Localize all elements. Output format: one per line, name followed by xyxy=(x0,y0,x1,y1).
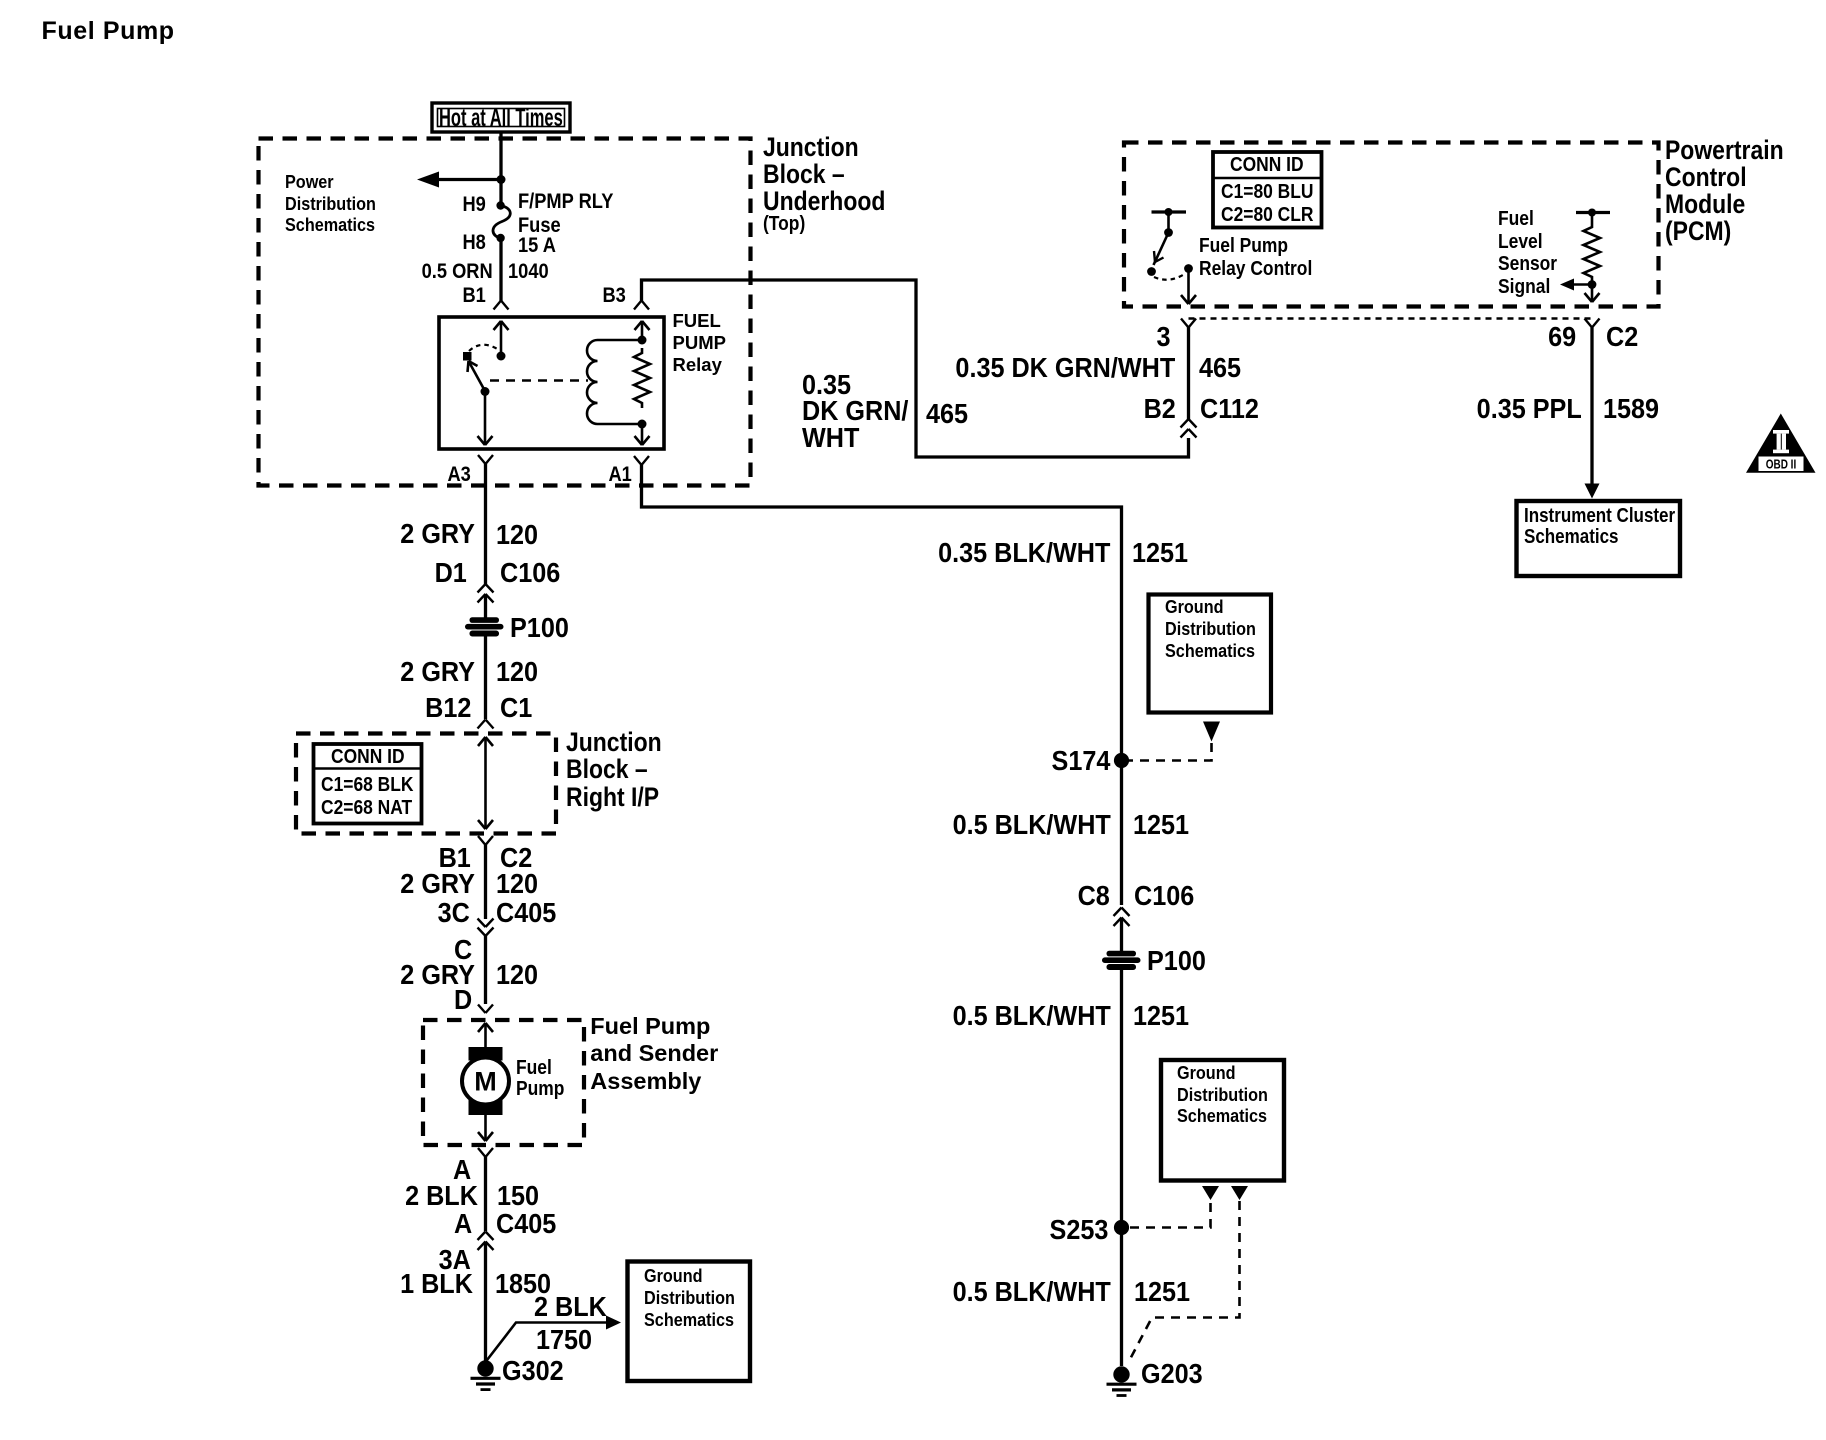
wire B3 to PCM pin 3 via C112 xyxy=(642,280,1189,457)
in-line connector C106 chevron and arrow xyxy=(478,584,494,603)
splice name S174 xyxy=(1052,747,1111,775)
connector C106 b xyxy=(1134,882,1194,910)
label Fuel Pump motor line1 xyxy=(516,1058,552,1079)
value C1=80 BLU xyxy=(1221,182,1313,203)
grommet P100 left xyxy=(465,617,504,636)
wire label 0.5 BLK/WHT c xyxy=(952,1278,1110,1306)
fuel pump relay box xyxy=(439,317,664,449)
relay dashed actuation line xyxy=(490,379,588,382)
splice S253 xyxy=(1114,1220,1129,1235)
grommet label P100 b xyxy=(1147,947,1206,975)
wire label 0.35 DK GRN/WHT xyxy=(956,354,1176,382)
circuit 1750 xyxy=(536,1326,592,1354)
wire motor to pump box bottom with arrow down xyxy=(478,1115,493,1141)
connector half D above pump assembly xyxy=(478,1005,493,1014)
label CONN ID rip header xyxy=(331,747,405,768)
pin D1 xyxy=(434,559,466,587)
pin D xyxy=(454,986,472,1014)
label Ground Distribution Schematics C line1 xyxy=(1177,1064,1236,1082)
label Powertrain Control Module line3 xyxy=(1665,191,1745,218)
in-line connector C112 chevron and arrow xyxy=(1181,419,1197,438)
pin 3 pcm xyxy=(1157,323,1171,351)
pin B1 relay xyxy=(463,285,486,306)
PCM connector face dotted line xyxy=(1189,317,1593,320)
pin A b xyxy=(454,1210,472,1238)
pin A1 xyxy=(609,464,632,485)
instrument cluster schematics box xyxy=(1517,501,1681,576)
PCM fuel pump relay control switch xyxy=(1147,208,1193,280)
splice name S253 xyxy=(1050,1216,1109,1244)
ground distribution schematics box C xyxy=(1161,1060,1284,1181)
pin H9 xyxy=(463,194,486,215)
label Fuel Pump Relay Control line1 xyxy=(1199,236,1288,257)
label Ground Distribution Schematics B line1 xyxy=(1165,598,1224,616)
label Fuel Level Sensor Signal line3 xyxy=(1498,254,1557,275)
junction block right IP dashed box xyxy=(296,734,556,834)
grommet label P100 a xyxy=(510,614,569,642)
pin A3 xyxy=(448,464,471,485)
circuit 1589 xyxy=(1603,395,1659,423)
value C2=68 NAT xyxy=(321,798,412,819)
wire label 2 GRY b xyxy=(400,658,475,686)
wire B1 to connector C405 xyxy=(484,845,487,919)
value Fuse xyxy=(518,215,561,236)
wire 0.35 PPL to instrument cluster xyxy=(1585,328,1600,499)
circuit 120 a xyxy=(496,521,538,549)
wire A1 from relay to right column xyxy=(642,465,1122,905)
fuel pump assembly dashed box xyxy=(423,1020,584,1145)
circuit number 1040 xyxy=(508,261,549,282)
junction block underhood dashed box xyxy=(259,139,751,486)
svg-text:M: M xyxy=(474,1067,497,1097)
pin B12 xyxy=(425,694,471,722)
circuit 120 c xyxy=(496,870,538,898)
label Power Distribution Schematics line3 xyxy=(285,216,375,234)
label Fuel Pump Relay Control line2 xyxy=(1199,259,1312,280)
dashed branch S174 to ground distribution box B xyxy=(1129,722,1220,761)
label Powertrain Control Module line2 xyxy=(1665,164,1747,191)
relay pin B1 arrow inside xyxy=(494,321,509,356)
connector half pin 3 at PCM xyxy=(1181,319,1196,328)
Hot at All Times feed box xyxy=(432,103,570,132)
connector C405 a xyxy=(496,899,556,927)
label Instrument Cluster Schematics line1 xyxy=(1524,506,1675,526)
dashed branch G203 to ground distribution box C right arrow xyxy=(1128,1186,1248,1363)
label Fuel Pump and Sender Assembly line2 xyxy=(590,1042,718,1066)
label Fuel Level Sensor Signal line4 xyxy=(1498,277,1550,298)
wire label 0.35 DK GRN WHT 3line c xyxy=(802,424,859,452)
wire A to connector C405 lower xyxy=(484,1157,487,1231)
label Fuel Pump and Sender Assembly line1 xyxy=(590,1015,710,1039)
ground name G302 xyxy=(502,1357,564,1385)
label FUEL PUMP Relay line2 xyxy=(673,334,726,353)
OBD II symbol xyxy=(1746,414,1816,473)
PCM fuel level sensor resistor xyxy=(1576,209,1610,289)
relay pin B3 arrow inside xyxy=(635,321,650,340)
label Junction Block Underhood line2 xyxy=(763,161,845,188)
relay switch dashed link arc xyxy=(469,345,499,351)
circuit 1251 d xyxy=(1134,1278,1190,1306)
junction node on feed wire xyxy=(497,175,506,184)
fuel pump motor M xyxy=(462,1047,509,1115)
wire label 0.35 BLK/WHT xyxy=(938,539,1110,567)
relay coil bottom node xyxy=(638,420,647,429)
wire C112 to PCM pin 3 xyxy=(1187,327,1190,419)
grommet P100 right xyxy=(1102,951,1141,970)
value 15 A xyxy=(518,235,556,256)
connector C2 pcm xyxy=(1606,323,1638,351)
circuit 120 b xyxy=(496,658,538,686)
connector C2 jb xyxy=(500,844,532,872)
relay switch pivot node xyxy=(481,387,490,396)
connector half C2 below junction block right IP xyxy=(478,836,493,845)
connector half A below pump assembly xyxy=(478,1148,493,1157)
wire fuse to relay pin B1 xyxy=(499,238,502,301)
wire label 2 BLK xyxy=(405,1182,478,1210)
wire branch to Power Distribution Schematics xyxy=(417,172,501,188)
connector C106 a xyxy=(500,559,560,587)
label Fuel Level Sensor Signal line1 xyxy=(1498,209,1534,230)
PCM sensor wire with arrow down xyxy=(1585,285,1600,303)
label Ground Distribution Schematics C line2 xyxy=(1177,1086,1268,1104)
wire label 1 BLK xyxy=(400,1270,473,1298)
value F/PMP RLY xyxy=(518,191,613,212)
wire C405 to ground G302 xyxy=(484,1242,487,1367)
pin 3A xyxy=(439,1246,471,1274)
connector half pin 69 at PCM xyxy=(1585,319,1600,328)
pin 3C xyxy=(438,899,470,927)
pin H8 xyxy=(463,232,486,253)
circuit 1251 c xyxy=(1133,1002,1189,1030)
wire label 2 GRY c xyxy=(400,870,475,898)
label Power Distribution Schematics line1 xyxy=(285,173,334,191)
label Instrument Cluster Schematics line2 xyxy=(1524,527,1618,547)
connector half A1 below relay dashed box xyxy=(634,456,649,465)
wire label 0.5 ORN xyxy=(421,261,492,282)
label Powertrain Control Module line4 xyxy=(1665,218,1731,245)
label Junction Block Right IP line2 xyxy=(566,756,648,783)
connector half B3 at relay xyxy=(634,301,649,310)
connector half A3 below relay xyxy=(478,455,493,464)
circuit 120 d xyxy=(496,961,538,989)
label Ground Distribution Schematics A line2 xyxy=(644,1289,735,1307)
svg-text:OBD II: OBD II xyxy=(1766,459,1797,472)
ground distribution schematics box A xyxy=(628,1262,751,1382)
wire label 0.35 PPL xyxy=(1476,395,1581,423)
pin B3 relay xyxy=(603,285,626,306)
pin A a xyxy=(453,1156,471,1184)
wire P100 down to ground G203 xyxy=(1120,970,1123,1366)
connector half C1 above junction block right IP xyxy=(478,720,494,729)
label FUEL PUMP Relay line1 xyxy=(673,312,721,331)
label FUEL PUMP Relay line3 xyxy=(673,356,722,375)
ground name G203 xyxy=(1141,1360,1203,1388)
label Hot at All Times xyxy=(439,106,563,131)
value C1=68 BLK xyxy=(321,775,413,796)
pin B2 xyxy=(1143,395,1175,423)
relay coil top node xyxy=(638,336,647,345)
wire label 0.5 BLK/WHT b xyxy=(952,1002,1110,1030)
label Power Distribution Schematics line2 xyxy=(285,195,376,213)
relay wire coil to A1 with arrow down xyxy=(635,424,650,445)
connector C1 xyxy=(500,694,532,722)
wire label 0.35 DK GRN WHT 3line b xyxy=(802,397,908,425)
fuse F/PMP RLY 15A xyxy=(493,201,510,242)
value C2=80 CLR xyxy=(1221,205,1313,226)
branch wire 2 BLK 1750 to ground distribution xyxy=(486,1316,622,1363)
label Fuel Level Sensor Signal line2 xyxy=(1498,232,1543,253)
wire label 2 BLK branch xyxy=(534,1293,607,1321)
wire A3 down to connector C106 xyxy=(484,464,487,584)
title xyxy=(42,19,175,44)
PCM dashed box xyxy=(1124,143,1659,307)
label Ground Distribution Schematics B line2 xyxy=(1165,620,1256,638)
circuit 1251 a xyxy=(1132,539,1188,567)
label Ground Distribution Schematics A line1 xyxy=(644,1267,703,1285)
circuit 465 a xyxy=(1199,354,1241,382)
relay wire pivot to A3 with arrow down xyxy=(478,391,493,445)
PCM relay control wire with arrow down xyxy=(1181,269,1196,305)
dashed branch S253 to ground distribution box C left arrow xyxy=(1130,1186,1219,1228)
wire P100 to junction block right IP xyxy=(484,636,487,719)
label Junction Block Underhood line3 xyxy=(763,188,885,215)
circuit 465 b xyxy=(926,400,968,428)
wire label 2 GRY a xyxy=(400,520,475,548)
ground distribution schematics box B xyxy=(1149,595,1272,713)
circuit 150 xyxy=(497,1182,539,1210)
label Ground Distribution Schematics B line3 xyxy=(1165,642,1255,660)
label Powertrain Control Module line1 xyxy=(1665,137,1784,164)
pin C8 xyxy=(1078,882,1110,910)
relay switch fixed contact xyxy=(463,352,472,361)
label Junction Block Right IP line3 xyxy=(566,784,659,811)
in-line connector C106 right chevron and arrow xyxy=(1114,908,1130,927)
circuit 1251 b xyxy=(1133,811,1189,839)
splice S174 xyxy=(1114,753,1129,768)
CONN ID box PCM xyxy=(1213,152,1322,228)
wire C405 to fuel pump assembly xyxy=(484,936,487,1004)
ground G203 symbol xyxy=(1107,1366,1137,1395)
relay coil resistor branch xyxy=(634,348,650,408)
wire through junction block right IP with arrows xyxy=(478,737,493,829)
wire into pump with arrow up xyxy=(478,1023,493,1048)
label Fuel Pump and Sender Assembly line3 xyxy=(590,1070,701,1094)
pin 69 pcm xyxy=(1549,323,1577,351)
relay coil xyxy=(587,340,642,424)
wire C106 to grommet P100 right xyxy=(1120,918,1123,952)
label Fuel Pump motor line2 xyxy=(516,1079,564,1100)
ground G302 symbol xyxy=(471,1360,501,1389)
wire label 0.5 BLK/WHT a xyxy=(952,811,1110,839)
relay switch blade with arrow xyxy=(468,361,486,391)
label Junction Block Underhood line1 xyxy=(763,134,859,161)
connector half B1 at relay xyxy=(494,301,509,310)
wire C106 to grommet P100 xyxy=(484,594,487,618)
connector C112 xyxy=(1200,395,1259,423)
in-line connector C405 lower chevron and arrow xyxy=(478,1232,494,1251)
wire from Hot at All Times down to fuse xyxy=(499,132,502,206)
label Junction Block Underhood line4 xyxy=(763,214,805,235)
in-line connector C405 arrow and chevron xyxy=(478,919,494,937)
pin C xyxy=(454,936,472,964)
wire label 2 GRY d xyxy=(400,961,475,989)
label Ground Distribution Schematics C line3 xyxy=(1177,1107,1267,1125)
label Ground Distribution Schematics A line3 xyxy=(644,1311,734,1329)
PCM sensor signal arrow to left xyxy=(1560,279,1592,291)
circuit 1850 xyxy=(495,1270,551,1298)
connector C405 b xyxy=(496,1210,556,1238)
relay switch common node xyxy=(497,352,506,361)
wire label 0.35 DK GRN WHT 3line a xyxy=(802,371,851,399)
label Junction Block Right IP line1 xyxy=(566,729,662,756)
pin B1 jb xyxy=(439,844,471,872)
CONN ID box right IP xyxy=(314,744,422,824)
label CONN ID pcm header xyxy=(1230,155,1304,176)
